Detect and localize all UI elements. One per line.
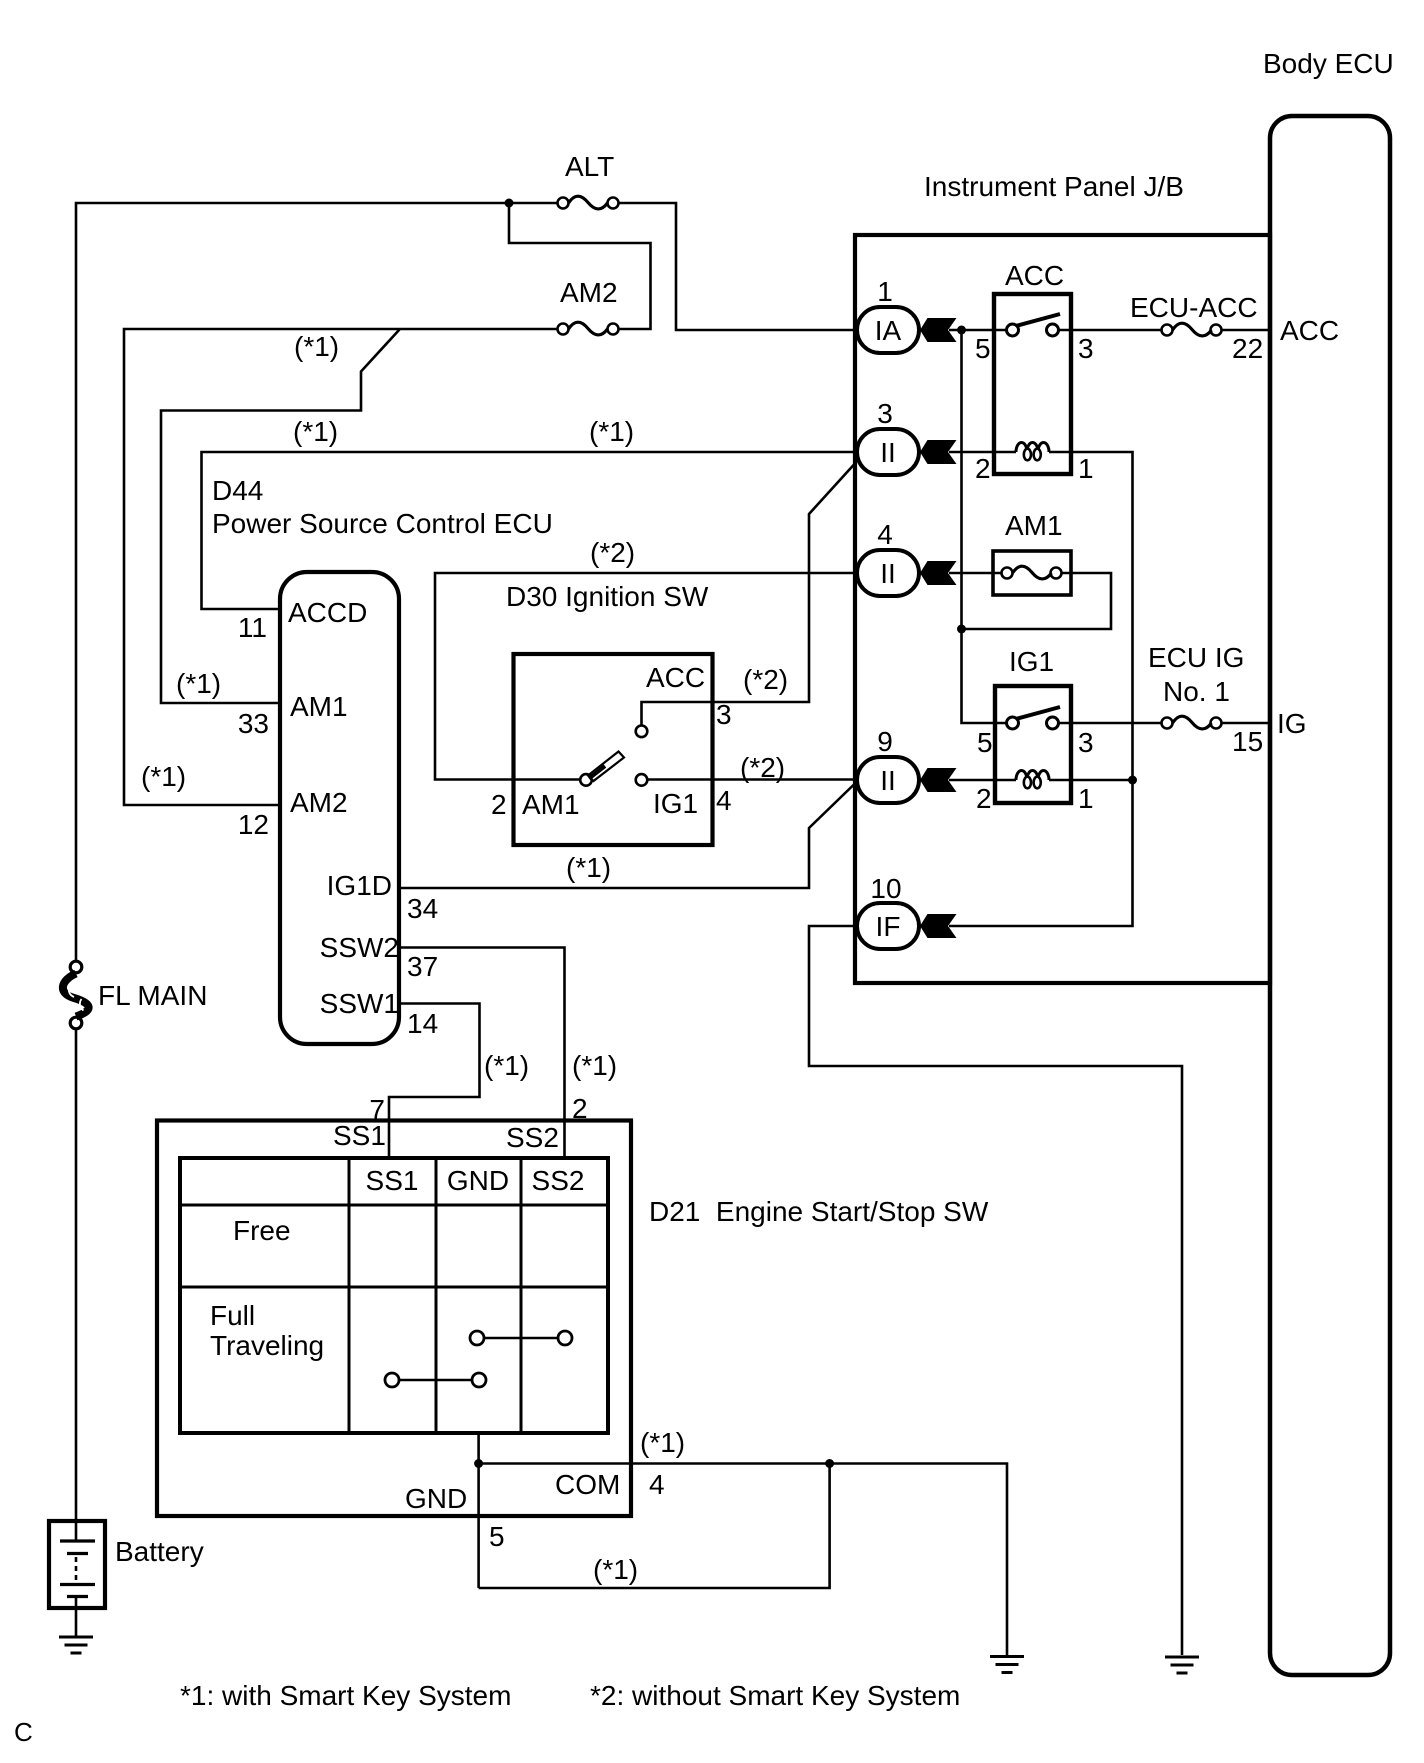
wire: battery to ground [75, 1597, 78, 1637]
wire: GND loop (*1) [479, 1464, 830, 1589]
AM1 fuse box [993, 551, 1071, 595]
svg-text:IG1: IG1 [653, 788, 698, 819]
svg-text:II: II [880, 558, 896, 589]
wire: D44 IG1D to connector II-9 [399, 783, 856, 888]
svg-text:(*1): (*1) [293, 416, 338, 447]
svg-text:IG1D: IG1D [327, 870, 392, 901]
svg-text:II: II [880, 765, 896, 796]
ACC relay coil [1016, 443, 1049, 461]
svg-text:34: 34 [407, 893, 438, 924]
wire: AM2 fuse to D44 pin AM2 [124, 329, 558, 805]
wire: D21 GND pin down [477, 1433, 480, 1588]
wire: IF to ground [809, 926, 1182, 1655]
svg-text:(*1): (*1) [589, 416, 634, 447]
svg-text:SS2: SS2 [532, 1165, 585, 1196]
wire: IG1 relay pin3 to ECU IG fuse [1058, 722, 1162, 725]
svg-text:(*1): (*1) [294, 331, 339, 362]
wire: II-3 to ACC relay coil [949, 451, 1016, 454]
svg-text:D44: D44 [212, 475, 263, 506]
junction node coil branch [1128, 776, 1137, 785]
svg-text:37: 37 [407, 951, 438, 982]
ground (Body ECU side) [1165, 1657, 1199, 1673]
svg-text:GND: GND [447, 1165, 509, 1196]
svg-text:D30 Ignition SW: D30 Ignition SW [506, 581, 709, 612]
svg-text:AM1: AM1 [1005, 510, 1063, 541]
svg-text:AM1: AM1 [290, 691, 348, 722]
wire: FL MAIN to battery [75, 1029, 78, 1541]
svg-text:Full: Full [210, 1300, 255, 1331]
connector oval II pin 9 [857, 757, 919, 803]
svg-text:ALT: ALT [565, 151, 614, 182]
svg-text:Traveling: Traveling [210, 1330, 324, 1361]
svg-text:IG1: IG1 [1009, 646, 1054, 677]
svg-text:Instrument Panel J/B: Instrument Panel J/B [924, 171, 1184, 202]
ACC relay contacts [1007, 314, 1061, 336]
wire: D44 pin ACCD to connector II-3 [202, 452, 860, 609]
svg-text:Free: Free [233, 1215, 291, 1246]
svg-text:ECU IG: ECU IG [1148, 642, 1244, 673]
wire: D21 COM to ground [479, 1464, 1007, 1656]
wire: AM1 fuse out to IA branch node [962, 573, 1112, 629]
svg-text:5: 5 [975, 333, 991, 364]
svg-text:AM2: AM2 [290, 787, 348, 818]
ACC relay box [994, 294, 1071, 474]
svg-text:(*2): (*2) [590, 537, 635, 568]
svg-text:ACCD: ACCD [288, 597, 367, 628]
svg-text:FL MAIN: FL MAIN [98, 980, 207, 1011]
wire: connector II-4 to ignition switch AM1 [435, 573, 859, 780]
svg-text:ACC: ACC [1005, 260, 1064, 291]
svg-text:(*1): (*1) [566, 852, 611, 883]
junction node AM1 fuse branch [957, 625, 966, 634]
wire: connector II-3 to ignition switch ACC (*2) [642, 465, 855, 726]
svg-text:4: 4 [649, 1469, 665, 1500]
D21 contact link GND-SS2 [470, 1331, 572, 1345]
connector oval IF pin 10 [857, 903, 919, 949]
wire: IG1 coil pin1 to ACC coil branch [1049, 779, 1133, 782]
Instrument Panel J/B box [855, 235, 1270, 983]
svg-text:1: 1 [1078, 453, 1094, 484]
svg-text:SS2: SS2 [506, 1122, 559, 1153]
svg-text:12: 12 [238, 809, 269, 840]
svg-text:Battery: Battery [115, 1536, 204, 1567]
svg-text:5: 5 [977, 727, 993, 758]
svg-text:33: 33 [238, 708, 269, 739]
ground (COM) [990, 1657, 1024, 1673]
Body ECU box [1270, 116, 1390, 1675]
wire: ignition switch IG1 to connector II-9 (*2) [647, 778, 859, 781]
svg-text:2: 2 [491, 789, 507, 820]
svg-text:(*1): (*1) [640, 1427, 685, 1458]
svg-text:SS1: SS1 [333, 1120, 386, 1151]
wire: II-4 to AM1 fuse [949, 572, 1002, 575]
svg-text:SS1: SS1 [366, 1165, 419, 1196]
svg-text:22: 22 [1232, 333, 1263, 364]
connector oval II pin 3 [857, 429, 919, 475]
D21 Engine Start/Stop SW outer box [157, 1121, 631, 1517]
svg-text:(*1): (*1) [141, 761, 186, 792]
IG1 relay contacts [1007, 707, 1061, 729]
svg-text:GND: GND [405, 1483, 467, 1514]
D30 Ignition SW box [514, 654, 713, 845]
fuse ECU-ACC [1162, 323, 1222, 336]
svg-text:*1: with Smart Key System: *1: with Smart Key System [180, 1680, 511, 1711]
svg-text:2: 2 [572, 1093, 588, 1124]
svg-text:15: 15 [1232, 726, 1263, 757]
svg-text:1: 1 [1078, 783, 1094, 814]
wire: ECU IG fuse to Body ECU IG [1222, 722, 1271, 725]
svg-text:11: 11 [238, 612, 267, 643]
svg-text:3: 3 [1078, 727, 1094, 758]
svg-text:1: 1 [877, 276, 893, 307]
svg-text:No. 1: No. 1 [1163, 676, 1230, 707]
svg-text:AM2: AM2 [560, 277, 618, 308]
svg-text:ACC: ACC [646, 662, 705, 693]
svg-text:3: 3 [716, 699, 732, 730]
D21 contact table [180, 1158, 608, 1433]
fuse ECU IG No. 1 [1162, 716, 1222, 729]
D30 terminal IG1 circle [636, 774, 648, 786]
D30 switch lever [588, 752, 624, 782]
D44 Power Source Control ECU box [280, 572, 399, 1044]
svg-text:C: C [14, 1717, 33, 1747]
svg-text:5: 5 [489, 1521, 505, 1552]
svg-text:D21 Engine Start/Stop SW: D21 Engine Start/Stop SW [649, 1196, 989, 1227]
ground (battery) [59, 1637, 93, 1653]
svg-text:(*1): (*1) [593, 1554, 638, 1585]
arrow connector at II-9 [920, 768, 957, 792]
D30 terminal ACC circle [636, 726, 648, 738]
junction node at ALT [505, 199, 514, 208]
junction node GND loop [825, 1459, 834, 1468]
svg-text:10: 10 [870, 873, 901, 904]
svg-text:3: 3 [1078, 333, 1094, 364]
wire: battery main vertical and top run to ALT [76, 203, 558, 961]
svg-text:COM: COM [555, 1469, 620, 1500]
battery [49, 1521, 105, 1608]
wire: ECU-ACC fuse to Body ECU ACC [1222, 329, 1271, 332]
wire: IA to ACC relay pin 5 [949, 329, 1007, 332]
svg-text:IG: IG [1277, 708, 1307, 739]
svg-text:*2: without Smart Key System: *2: without Smart Key System [590, 1680, 960, 1711]
svg-text:(*2): (*2) [740, 752, 785, 783]
connector oval II pin 4 [857, 550, 919, 596]
svg-text:ACC: ACC [1280, 315, 1339, 346]
svg-text:14: 14 [407, 1008, 438, 1039]
arrow connector at IA [920, 318, 957, 342]
wire: ACC relay pin3 to ECU-ACC fuse [1058, 329, 1162, 332]
svg-text:4: 4 [716, 785, 732, 816]
wire: ACC relay coil pin1 down to IF [949, 452, 1133, 926]
svg-text:II: II [880, 437, 896, 468]
svg-text:SSW2: SSW2 [320, 932, 399, 963]
svg-text:AM1: AM1 [522, 789, 580, 820]
arrow connector at II-4 [920, 561, 957, 585]
svg-text:(*1): (*1) [484, 1050, 529, 1081]
junction node below IA [957, 326, 966, 335]
svg-text:2: 2 [975, 453, 991, 484]
wire: IA node down to IG1 relay pin 5 [962, 330, 1007, 723]
D21 contact link SS1-GND [385, 1373, 486, 1387]
D30 terminal AM1 circle [580, 774, 592, 786]
fuse ALT [558, 196, 619, 209]
arrow connector at II-3 [920, 440, 957, 464]
wire: D44 SSW2 to D21 SS2 [399, 948, 565, 1160]
arrow connector at IF [920, 914, 957, 938]
fusible link FL MAIN [63, 961, 89, 1029]
junction node COM [474, 1459, 483, 1468]
svg-text:9: 9 [877, 726, 893, 757]
fuse AM2 [558, 322, 619, 335]
svg-text:(*1): (*1) [572, 1050, 617, 1081]
svg-text:ECU-ACC: ECU-ACC [1130, 292, 1258, 323]
svg-text:(*2): (*2) [743, 664, 788, 695]
IG1 relay coil [1016, 771, 1049, 789]
connector oval IA pin 1 [857, 307, 919, 353]
wire: AM2 tap to D44 pin AM1 [161, 330, 400, 704]
svg-text:2: 2 [976, 783, 992, 814]
svg-text:SSW1: SSW1 [320, 988, 399, 1019]
svg-text:4: 4 [877, 519, 893, 550]
svg-text:(*1): (*1) [176, 668, 221, 699]
wire: II-9 to IG1 relay coil [949, 779, 1016, 782]
svg-text:IF: IF [876, 911, 901, 942]
fuse AM1 [1002, 566, 1062, 579]
IG1 relay box [995, 686, 1071, 803]
wire: ALT node to AM2 fuse [509, 203, 651, 329]
svg-text:IA: IA [875, 315, 902, 346]
wire: ALT fuse to IA [619, 203, 860, 330]
wire: D44 SSW1 to D21 SS1 [389, 1004, 480, 1160]
svg-text:Power Source Control ECU: Power Source Control ECU [212, 508, 553, 539]
svg-text:3: 3 [877, 398, 893, 429]
svg-text:Body ECU: Body ECU [1263, 48, 1394, 79]
